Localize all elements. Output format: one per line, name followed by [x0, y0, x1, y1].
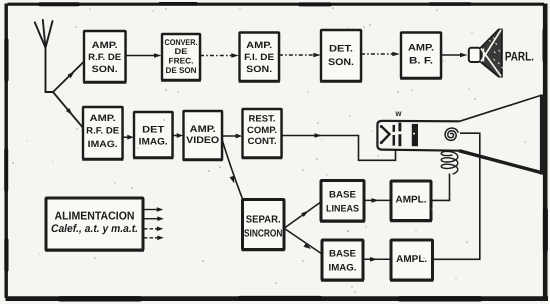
wire AMP VIDEO to SEPAR SINCRON — [222, 138, 243, 200]
svg-text:PARL.: PARL. — [505, 50, 534, 64]
arrow BASE IMAG to AMPL2 — [363, 257, 391, 262]
svg-text:R.F. DE: R.F. DE — [86, 125, 119, 135]
block CONVER DE FREC DE SON — [161, 34, 201, 81]
block SEPAR SINCRON — [242, 200, 285, 251]
arrow DET SON to AMP BF (dashed) — [361, 52, 400, 57]
CRT heater filament — [382, 127, 390, 143]
svg-text:SON.: SON. — [246, 64, 272, 74]
CRT picture tube outline — [377, 95, 543, 175]
svg-text:LINEAS: LINEAS — [326, 204, 359, 215]
svg-text:SINCRON: SINCRON — [244, 228, 283, 239]
svg-text:VIDEO: VIDEO — [186, 135, 219, 146]
svg-text:DET: DET — [142, 125, 164, 136]
svg-text:DET.: DET. — [329, 44, 353, 55]
block BASE IMAG — [321, 240, 364, 281]
svg-text:Calef., a.t. y m.a.t.: Calef., a.t. y m.a.t. — [51, 223, 138, 235]
deflection coil spiral — [445, 128, 458, 140]
svg-text:AMP.: AMP. — [246, 40, 272, 50]
supply arrow 3 (dashed) — [144, 227, 163, 232]
svg-text:BASE: BASE — [329, 190, 356, 201]
svg-text:IMAG.: IMAG. — [88, 139, 118, 149]
svg-text:SON.: SON. — [92, 64, 118, 74]
svg-text:AMPL.: AMPL. — [396, 254, 427, 265]
arrow IMAG to DET IMAG — [123, 135, 134, 140]
block AMP VIDEO — [183, 111, 223, 160]
svg-text:AMP.: AMP. — [190, 124, 216, 135]
arrow AMP VIDEO to REST — [222, 134, 242, 139]
arrow AMP FI to DET SON (dashed) — [279, 53, 321, 58]
supply arrow 2 — [144, 216, 164, 221]
antenna — [35, 20, 53, 92]
svg-text:DE SON: DE SON — [166, 66, 197, 75]
wire antenna to AMP RF SON — [53, 62, 84, 93]
svg-text:FREC.: FREC. — [169, 56, 194, 65]
CRT cathode bar — [393, 125, 396, 146]
wire antenna to AMP RF IMAG — [53, 92, 84, 129]
svg-text:R.F. DE: R.F. DE — [88, 52, 121, 62]
arrow CONVER to AMP FI (dashed) — [200, 53, 239, 58]
svg-text:AMP.: AMP. — [90, 113, 116, 123]
wire top AMPL to yoke coil — [431, 174, 450, 201]
svg-text:F.I. DE: F.I. DE — [244, 52, 274, 62]
CRT anode bar — [412, 124, 418, 146]
svg-text:SEPAR.: SEPAR. — [246, 215, 281, 226]
block DET SON — [320, 30, 362, 82]
svg-text:AMPL.: AMPL. — [396, 194, 427, 205]
CRT grid bar — [398, 123, 401, 147]
wire REST to CRT gun — [282, 136, 396, 161]
svg-text:DE: DE — [175, 47, 189, 56]
supply arrow 4 (dashed) — [144, 236, 164, 241]
block AMPL image — [390, 240, 433, 281]
block AMPL line — [390, 181, 432, 221]
arrow SON to CONVER — [126, 53, 162, 58]
svg-text:B. F.: B. F. — [409, 56, 433, 67]
svg-text:COMP.: COMP. — [247, 125, 277, 135]
svg-text:ALIMENTACION: ALIMENTACION — [55, 211, 135, 223]
svg-text:IMAG.: IMAG. — [329, 263, 357, 274]
block AMP FI DE SON — [239, 33, 280, 82]
yoke coil — [441, 151, 458, 174]
svg-text:SON.: SON. — [328, 57, 354, 68]
svg-text:IMAG.: IMAG. — [139, 136, 168, 147]
arrow AMP BF to speaker — [441, 53, 468, 58]
block BASE LINEAS — [320, 181, 365, 222]
supply arrow 1 — [144, 207, 163, 212]
wire SEPAR to BASE LINEAS — [284, 202, 321, 229]
arrow BASE LINEAS to AMPL1 — [364, 198, 391, 203]
wire bottom AMPL to deflection spiral — [433, 133, 480, 259]
block ALIMENTACION — [45, 198, 144, 251]
wire SEPAR to BASE IMAG — [284, 229, 322, 255]
block AMP BF — [400, 33, 442, 79]
block DET IMAG — [133, 112, 173, 158]
svg-text:CONT.: CONT. — [248, 136, 277, 146]
svg-text:AMP.: AMP. — [408, 42, 434, 53]
arrow DET IMAG to AMP VIDEO — [173, 133, 183, 138]
block AMP RF DE IMAG — [82, 107, 123, 160]
block AMP RF DE SON — [83, 31, 126, 83]
svg-text:AMP.: AMP. — [92, 40, 118, 50]
svg-text:CONVER.: CONVER. — [165, 38, 198, 47]
speaker driver — [469, 48, 481, 62]
svg-text:BASE: BASE — [329, 249, 356, 260]
block REST COMP CONT — [242, 109, 283, 158]
svg-text:REST.: REST. — [249, 113, 276, 123]
svg-text:W: W — [395, 111, 402, 118]
speaker horn — [481, 30, 505, 77]
